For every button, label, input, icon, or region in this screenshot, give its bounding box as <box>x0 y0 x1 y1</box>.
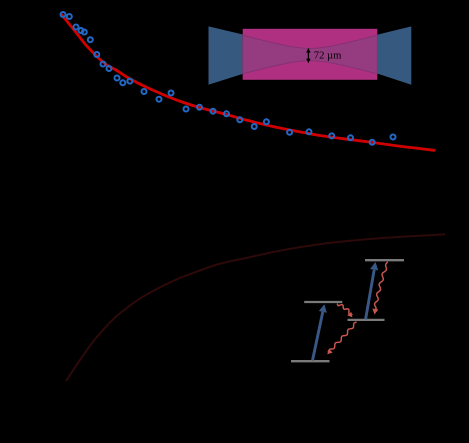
data point 16 <box>184 107 189 112</box>
blue pump arrow 1 <box>313 304 327 360</box>
data point 17 <box>197 105 202 110</box>
data point 9 <box>107 66 112 71</box>
data point 27 <box>370 140 375 145</box>
waist double arrow <box>307 51 309 60</box>
data point 4 <box>79 28 84 33</box>
data point 22 <box>264 119 269 124</box>
level diagram: top level <box>365 259 404 261</box>
data point 28 <box>391 135 396 140</box>
data point 10 <box>115 76 120 81</box>
data point 12 <box>127 79 132 84</box>
data point 23 <box>287 130 292 135</box>
blue pump arrow 2 <box>366 262 379 319</box>
data point 2 <box>67 14 72 19</box>
data point 1 <box>61 12 66 17</box>
level diagram: intermediate right level <box>348 319 385 321</box>
cavity inset: intracavity field rectangle <box>243 29 378 80</box>
cavity inset: left mirror <box>209 26 244 84</box>
data point 15 <box>169 91 174 96</box>
data point 5 <box>82 30 87 35</box>
svg-text:72 µm: 72 µm <box>314 50 342 61</box>
data point 18 <box>211 109 216 114</box>
data point 25 <box>329 133 334 138</box>
data point 24 <box>307 129 312 134</box>
data point 14 <box>157 97 162 102</box>
data point 8 <box>101 62 106 67</box>
data point 19 <box>224 111 229 116</box>
data point 7 <box>94 52 99 57</box>
cavity inset: gaussian mode hourglass <box>243 35 378 74</box>
data point 11 <box>120 80 125 85</box>
red fit curve <box>62 15 434 150</box>
red wavy decay arrow 2 <box>327 322 356 354</box>
cavity inset: right mirror <box>377 26 411 84</box>
data point 21 <box>252 124 257 129</box>
level diagram: ground level <box>291 360 330 362</box>
data point 6 <box>88 37 93 42</box>
data point 13 <box>142 89 147 94</box>
data point 20 <box>237 117 242 122</box>
data point 26 <box>348 135 353 140</box>
data point 3 <box>74 25 79 30</box>
level diagram: intermediate left level <box>304 301 342 303</box>
red wavy decay arrow 1 <box>337 304 352 318</box>
red wavy decay arrow 3 <box>372 262 387 315</box>
dark saturation curve <box>66 234 445 381</box>
